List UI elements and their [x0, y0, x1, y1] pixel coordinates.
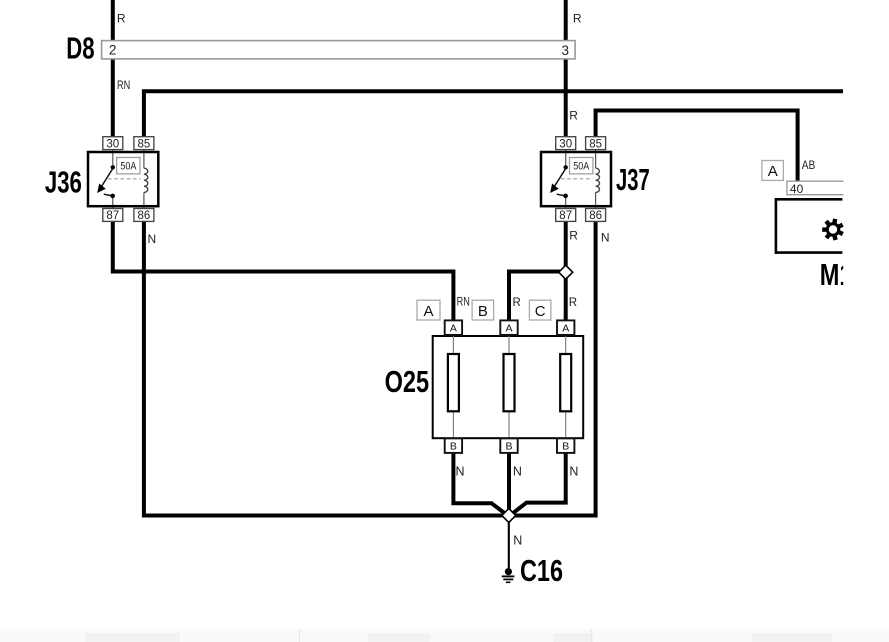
svg-text:B: B: [478, 303, 488, 320]
svg-text:30: 30: [106, 138, 119, 150]
svg-text:50A: 50A: [120, 160, 137, 172]
svg-text:40: 40: [790, 182, 804, 196]
svg-text:85: 85: [589, 138, 602, 150]
svg-text:R: R: [573, 11, 582, 25]
svg-text:D8: D8: [66, 31, 94, 66]
svg-text:87: 87: [106, 210, 119, 222]
svg-text:A: A: [450, 322, 457, 334]
svg-text:A: A: [562, 322, 569, 334]
svg-text:R: R: [569, 228, 578, 242]
svg-text:30: 30: [559, 138, 572, 150]
svg-text:RN: RN: [117, 78, 130, 92]
svg-text:2: 2: [109, 43, 117, 58]
svg-text:J37: J37: [616, 162, 650, 197]
svg-text:O25: O25: [385, 364, 430, 399]
svg-text:A: A: [423, 303, 433, 320]
svg-text:3: 3: [562, 43, 570, 58]
svg-text:A: A: [768, 163, 778, 180]
svg-text:R: R: [117, 12, 126, 26]
svg-text:N: N: [513, 464, 522, 478]
svg-text:A: A: [505, 322, 512, 334]
svg-text:R: R: [513, 297, 521, 309]
svg-text:C: C: [535, 303, 546, 320]
svg-text:N: N: [148, 232, 157, 246]
svg-text:R: R: [569, 108, 578, 122]
svg-text:B: B: [562, 440, 569, 452]
svg-text:N: N: [569, 464, 578, 478]
svg-text:86: 86: [589, 210, 602, 222]
svg-text:87: 87: [559, 210, 572, 222]
svg-text:C16: C16: [520, 553, 563, 588]
svg-text:B: B: [450, 440, 457, 452]
svg-text:RN: RN: [457, 297, 470, 309]
svg-text:R: R: [569, 297, 577, 309]
svg-text:N: N: [513, 533, 522, 547]
svg-text:B: B: [505, 440, 512, 452]
svg-text:N: N: [601, 230, 610, 244]
svg-text:J36: J36: [45, 165, 82, 200]
svg-text:N: N: [456, 464, 465, 478]
svg-text:85: 85: [138, 138, 151, 150]
svg-text:50A: 50A: [573, 160, 590, 172]
svg-text:AB: AB: [802, 160, 816, 172]
svg-text:86: 86: [138, 210, 151, 222]
